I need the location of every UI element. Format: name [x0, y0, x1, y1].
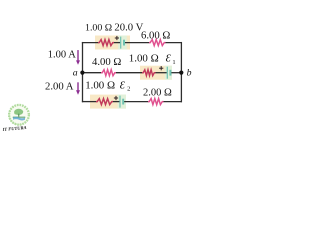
wire bottom-right segment [163, 101, 182, 103]
svg-text:2: 2 [127, 86, 130, 93]
battery highlight band (e2) [118, 95, 127, 109]
plus sign of battery e2 [114, 96, 118, 100]
svg-text:2.00 A: 2.00 A [45, 80, 74, 92]
watermark logo land line [13, 117, 26, 118]
resistor 6.00 ohm (top right) [149, 40, 166, 46]
watermark logo tree [14, 109, 23, 115]
resistor 1.00 ohm (internal resistance of e2) [96, 99, 113, 105]
svg-text:b: b [187, 67, 192, 78]
battery 20.0 V short plate [123, 40, 125, 46]
svg-text:Ɛ: Ɛ [166, 53, 172, 64]
wire middle between 4-ohm and e1 resistor [116, 72, 143, 74]
resistor 1.00 ohm (internal resistance of e1) [142, 70, 156, 76]
svg-text:1.00 Ω: 1.00 Ω [85, 79, 115, 91]
battery highlight band (top) [118, 36, 127, 50]
svg-text:6.00 Ω: 6.00 Ω [141, 30, 170, 42]
svg-text:1: 1 [172, 59, 175, 66]
svg-text:4.00 Ω: 4.00 Ω [92, 56, 121, 68]
wire middle battery to b [171, 72, 182, 74]
svg-text:1.00 A: 1.00 A [48, 49, 76, 60]
wire left side [82, 42, 84, 102]
resistor 2.00 ohm (bottom right) [148, 99, 164, 105]
resistor 1.00 ohm (top, internal resistance of 20.0 V source) [98, 40, 114, 46]
wire top between battery and 6-ohm [125, 42, 150, 44]
watermark logo water [13, 117, 25, 121]
watermark logo wreath ring [9, 105, 29, 125]
wire middle between e1 resistor and battery [155, 72, 167, 74]
battery 20.0 V long plate [120, 37, 122, 49]
battery e1 short plate [169, 70, 171, 76]
highlight box around EMF e2 (bottom) [90, 95, 126, 109]
wire bottom between e2 resistor and battery [113, 101, 120, 103]
wire right side [180, 42, 182, 102]
wire bottom-left segment [82, 101, 97, 103]
svg-text:Ɛ: Ɛ [120, 80, 126, 91]
battery e1 long plate [166, 67, 168, 79]
svg-text:20.0 V: 20.0 V [114, 22, 143, 34]
plus sign of battery e1 [159, 66, 163, 70]
highlight box around EMF e1 (middle) [140, 66, 172, 80]
wire middle a to 4-ohm [83, 72, 102, 74]
battery highlight band (e1) [165, 66, 172, 80]
current arrow 1.00 A (down) [76, 50, 80, 65]
wire top-right segment [165, 42, 182, 44]
battery e2 long plate [119, 96, 121, 108]
resistor 4.00 ohm (middle) [101, 70, 116, 76]
wire bottom between battery and 2-ohm [124, 101, 149, 103]
node a junction dot [80, 71, 84, 75]
highlight box around 20.0 V source (top) [95, 36, 130, 50]
node b junction dot [179, 71, 183, 75]
svg-text:a: a [73, 67, 78, 78]
wire top between R and battery [114, 42, 121, 44]
svg-text:1.00 Ω: 1.00 Ω [129, 52, 159, 64]
plus sign of 20.0 V battery [115, 36, 119, 40]
battery e2 short plate [122, 99, 124, 105]
wire top-left segment [82, 42, 99, 44]
svg-text:1.00 Ω: 1.00 Ω [85, 23, 112, 34]
svg-text:2.00 Ω: 2.00 Ω [143, 87, 172, 98]
current arrow 2.00 A (down) [76, 82, 80, 94]
